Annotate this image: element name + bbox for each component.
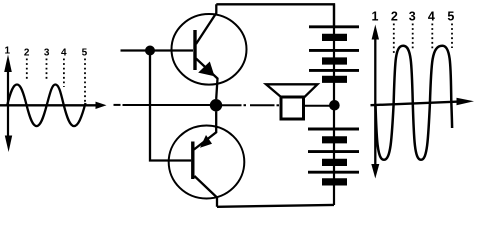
input y-axis up arrowhead [4, 55, 12, 73]
speaker LS1 box [281, 97, 304, 119]
node emitter junction dot [210, 99, 222, 111]
battery B1 short plate 3 [322, 76, 347, 83]
input dotted line 5 [84, 59, 86, 103]
battery B1 long plate 2 [309, 49, 359, 52]
battery B2 long plate 1 [308, 128, 359, 131]
output dotted line 5 [451, 24, 453, 49]
transistor Q1 collector [196, 4, 216, 44]
battery B1 long plate 3 [309, 69, 359, 72]
signal path dot [244, 104, 247, 106]
output y-axis up arrowhead [372, 25, 379, 40]
wire collector to battery top [216, 4, 334, 27]
input y-axis down arrowhead [5, 136, 12, 153]
output plot y-axis [374, 32, 376, 166]
output dotted line 3 [412, 24, 414, 51]
svg-text:3: 3 [44, 48, 50, 59]
svg-text:1: 1 [372, 9, 379, 23]
input plot y-axis [7, 62, 9, 139]
input dotted line 3 [46, 59, 48, 81]
node battery mid junction dot [329, 100, 340, 111]
transistor Q1 emitter arrowhead (NPN, pointing out) [198, 62, 214, 77]
output plot x-axis arrowhead [457, 98, 475, 105]
wire bottom collector to battery bottom [217, 205, 334, 207]
battery column wire [333, 4, 335, 205]
battery B2 short plate 3 [322, 178, 347, 185]
output plot x-axis [371, 102, 460, 106]
svg-text:5: 5 [82, 48, 88, 59]
output dotted line 4 [431, 24, 433, 51]
battery B1 long plate 1 [309, 25, 359, 28]
battery B2 (bottom) plates [308, 129, 359, 182]
svg-text:5: 5 [447, 9, 454, 23]
transistor Q2 base bar [191, 142, 194, 180]
svg-text:3: 3 [409, 9, 416, 23]
transistor Q1 base bar [193, 30, 196, 70]
battery B1 short plate 2 [322, 57, 347, 64]
transistor Q2 circle (bottom PNP) [169, 126, 245, 199]
battery B2 short plate 2 [322, 159, 347, 166]
transistor Q1 emitter [196, 59, 218, 100]
wire input to bases junction [123, 104, 211, 106]
battery B2 long plate 2 [308, 150, 359, 153]
output amplified waveform [376, 46, 453, 160]
svg-text:2: 2 [24, 48, 30, 59]
svg-text:4: 4 [61, 48, 67, 59]
battery B1 (top) plates [309, 27, 359, 80]
transistor Q2 collector [194, 176, 217, 207]
input dotted line 4 [63, 59, 65, 88]
node base junction dot [145, 46, 155, 56]
input sine wave [7, 85, 85, 127]
signal path dash [250, 104, 275, 106]
input plot x-axis [0, 104, 96, 106]
svg-text:2: 2 [391, 9, 398, 23]
output y-axis down arrowhead [371, 164, 379, 179]
wire junction down to bottom base [150, 52, 191, 161]
wire top base [121, 49, 194, 51]
signal path wire (emitter node to speaker) [222, 104, 242, 106]
battery B2 short plate 1 [322, 136, 347, 143]
battery B2 long plate 3 [308, 171, 359, 174]
battery B1 short plate 1 [322, 34, 347, 41]
transistor Q2 emitter [194, 111, 216, 149]
svg-text:4: 4 [428, 9, 435, 23]
input dotted line 2 [26, 59, 28, 81]
transistor Q2 emitter arrowhead (PNP, pointing in) [200, 135, 212, 148]
input plot x-axis arrowhead [96, 102, 107, 109]
speaker LS1 cone [266, 84, 318, 97]
transistor Q1 circle (top NPN) [172, 14, 247, 85]
output dotted line 2 [393, 24, 395, 55]
svg-text:1: 1 [5, 46, 11, 57]
signal path dash (input to amp) [114, 104, 121, 106]
signal path dot [277, 104, 280, 106]
wire speaker to battery junction [305, 105, 331, 107]
